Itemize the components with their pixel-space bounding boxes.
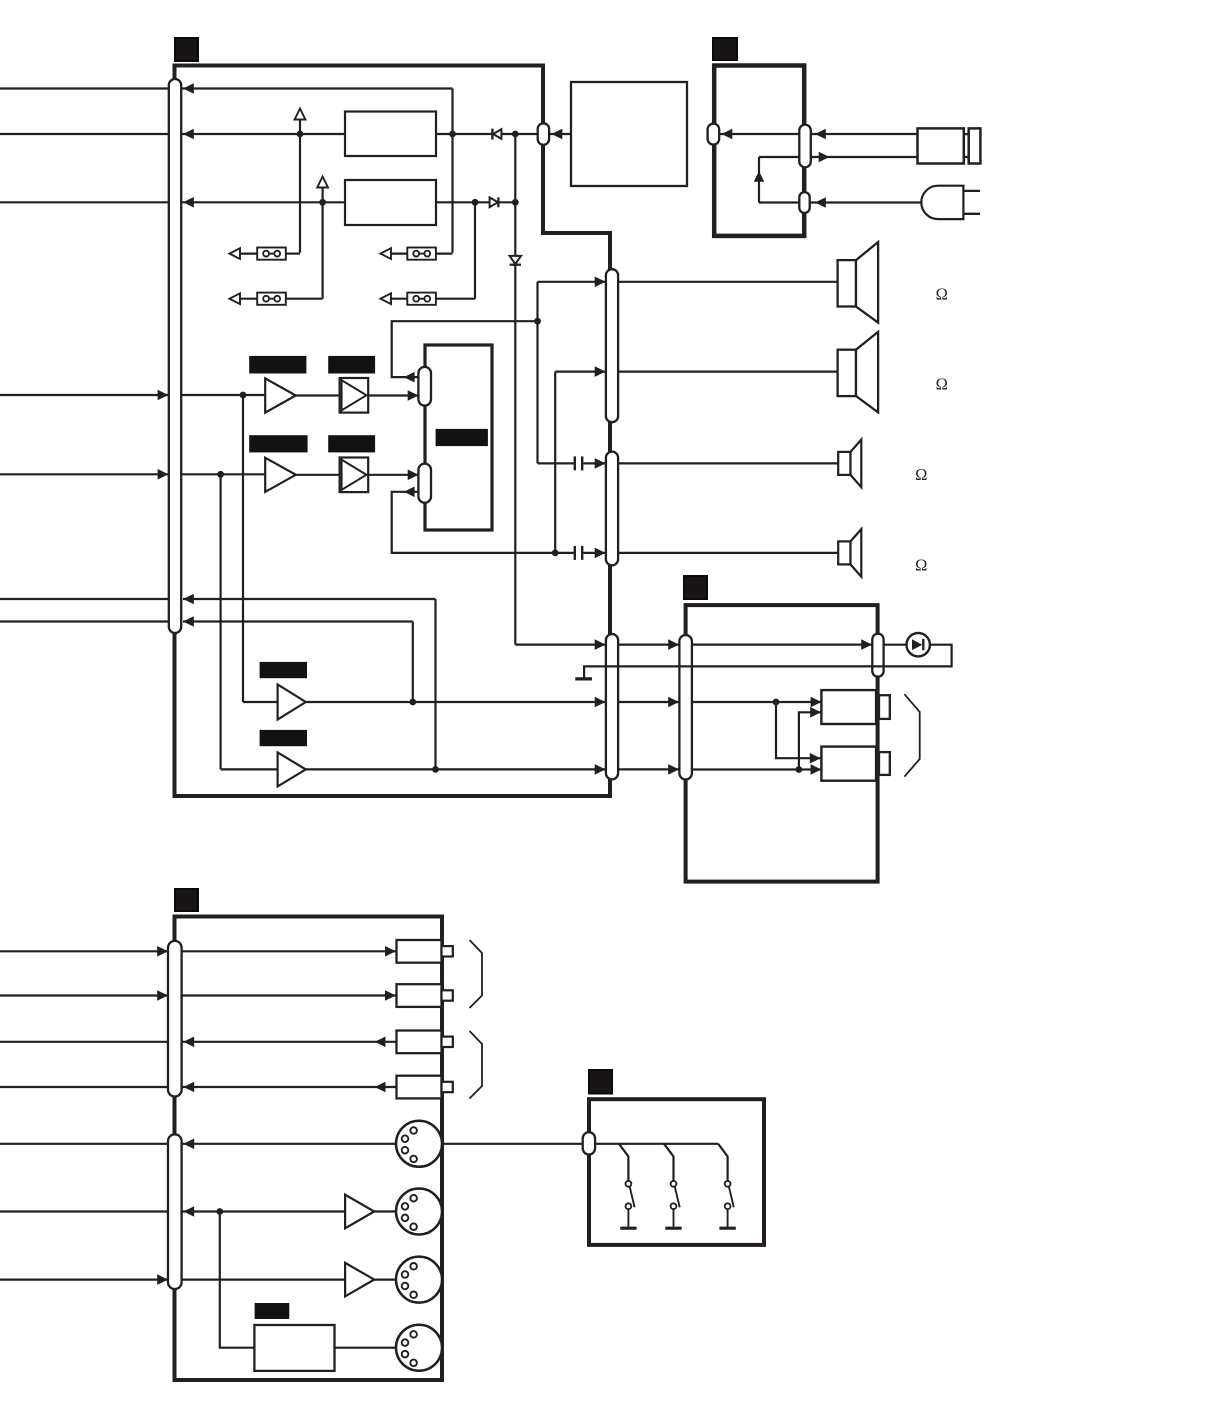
wire: relay 2 output [436, 201, 490, 203]
wire: net W3 segment to relay block 2 [181, 197, 345, 208]
wire: M1 to speaker switch [368, 390, 418, 401]
connector J9 (AC box inlet) [799, 125, 811, 168]
junction: PJ2 branch [796, 766, 803, 773]
relay block 1 [345, 112, 436, 157]
junction: input 1 branch [240, 392, 247, 399]
label bar (redacted) above amp A2 [249, 435, 307, 452]
wire: F4 vertical [474, 202, 476, 298]
diode D1 [492, 129, 501, 140]
wire: to speaker SP1 [618, 281, 838, 283]
wire: play in R to left edge [0, 1086, 168, 1088]
wire: mains to power supply [549, 129, 571, 140]
junction: A4 out tap [432, 766, 439, 773]
RCA jack RCA1 [397, 940, 453, 963]
cabinet name label (redacted) [684, 576, 707, 599]
connector J1 (main unit rear connector) [169, 79, 181, 633]
DIN connector DIN3 [396, 1257, 442, 1303]
wire: input 1 to amp A1 [158, 390, 266, 401]
wire: footswitch tap 2 [664, 1144, 674, 1181]
wire: AC box internal lower [759, 201, 799, 203]
wire: speaker bus vertical A [536, 282, 538, 464]
wire: switch out top to speaker node [392, 321, 538, 382]
DIN connector DIN4 [396, 1325, 442, 1371]
wire: A3 output to connector [306, 697, 606, 708]
connector J6 (cabinet link) [872, 634, 883, 677]
wire: A3 signal to jack PJ1 [692, 697, 822, 708]
wire: input 1 from left edge [0, 394, 169, 396]
wire: A1 to M1 [296, 394, 340, 396]
phone jack PJ1 [821, 690, 889, 724]
wire: D2 to node N1 [498, 201, 515, 203]
wire: power cord hot [811, 129, 918, 140]
wire: node N1 vertical upper [514, 134, 516, 256]
wire: amp B2 to DIN3 [374, 1278, 396, 1280]
wire: rec out R to left edge [0, 994, 168, 996]
wire: output 1 to left edge [0, 87, 169, 89]
amp B2 [345, 1263, 374, 1297]
footswitch SW3 [719, 1181, 735, 1228]
wire: pilot LED feed [884, 644, 907, 646]
amp A4 [278, 752, 306, 786]
capacitor C2 [555, 546, 605, 560]
diode D2 [490, 197, 499, 207]
wire: midi in line to left edge [0, 1278, 168, 1280]
wire: line out 1 loop [183, 594, 436, 770]
junction: N1 top [512, 131, 519, 138]
tape jacks group bracket [470, 940, 483, 1008]
AC mains plug [921, 186, 980, 219]
wire: AC box internal switched line [759, 156, 799, 158]
amp A3 [278, 685, 306, 720]
label bar (redacted) above amp A1 [249, 356, 306, 374]
connector JS1 on switch box [418, 367, 431, 406]
connector J4 (power amp out) [606, 634, 618, 779]
amp A1 [265, 378, 296, 412]
chassis ground [575, 677, 592, 680]
RCA jack RCA3 [397, 1031, 453, 1054]
wire: midi out to amp B1 [182, 1206, 346, 1217]
phones group bracket [904, 694, 919, 777]
wire: speaker 1 feed [538, 277, 606, 288]
svg-text:Ω: Ω [936, 285, 948, 304]
wire: branch to jack PJ2 upper [776, 702, 821, 764]
junction: W1/W2 [449, 131, 456, 138]
connector J5 (cabinet input) [679, 635, 692, 780]
junction: PJ1 branch [773, 699, 780, 706]
pilot LED [907, 633, 930, 656]
impedance label SP3 [915, 465, 927, 484]
wire: A4 signal to jack PJ2 [692, 764, 822, 775]
wire: line out 2 to left edge [0, 620, 169, 622]
diode D3 [510, 256, 521, 265]
wire: remote line to DIN1 [182, 1139, 396, 1150]
capacitor C1 [538, 456, 606, 470]
AC box name label (redacted) [713, 38, 737, 60]
wire: DIN1 to footswitch [442, 1143, 583, 1145]
speaker switch box [425, 345, 492, 530]
wire: input 2 to amp A2 [158, 469, 266, 480]
wire: amp B1 to DIN2 [374, 1210, 396, 1212]
connector J13 (footswitch jack) [583, 1132, 595, 1154]
sense tap arrow T2 [317, 177, 328, 188]
MIDI processor block [254, 1325, 334, 1371]
wire: line out 1 to left edge [0, 598, 169, 600]
wire: midi in from DIN3 [157, 1274, 345, 1285]
wire: input 2 from left edge [0, 473, 169, 475]
wire: remote line to left edge [0, 1143, 168, 1145]
wire: node N1 vertical lower [515, 265, 605, 650]
mute block M1 [340, 378, 369, 413]
DIN connector DIN2 [396, 1189, 442, 1235]
connector J3 (speaker out lower) [606, 452, 618, 566]
mute block M2 [340, 458, 369, 493]
footswitch name label (redacted) [589, 1070, 612, 1094]
wire: power feed between J4 and J5 [618, 639, 679, 650]
connector J12 (MIDI connector) [168, 1134, 182, 1289]
relay block 2 [345, 180, 436, 225]
wire: branch input1 down to amp A3 [243, 395, 278, 702]
speaker SP2 [838, 332, 879, 413]
speaker SP4 [838, 529, 861, 577]
RCA jack RCA2 [397, 984, 453, 1007]
junction: N1 mid [512, 199, 519, 206]
connector J11 (tape connector) [168, 941, 182, 1097]
wire: D1 to node N1 [501, 133, 537, 135]
connector JS2 on switch box [418, 464, 431, 503]
wire: net W2 segment to relay block 1 [181, 129, 345, 140]
wire: rec out L to RCA1 [157, 946, 396, 957]
junction: W3 fuse tap [472, 199, 479, 206]
wire: AC box internal riser [754, 157, 765, 203]
junction: speaker node A [534, 318, 541, 325]
wire: net W1 horizontal [181, 83, 452, 94]
wire: AC plug lead [810, 197, 924, 208]
wire: tap vertical to fuse F2 [322, 188, 324, 299]
label bar (redacted) above amp A3 [260, 662, 307, 678]
wire: output 3 to left edge [0, 201, 169, 203]
amp B1 [345, 1195, 374, 1229]
fuse F1 [230, 248, 301, 260]
fuse F4 [381, 293, 476, 305]
wire: A4 output to connector [306, 764, 606, 775]
wire: output 2 to left edge [0, 133, 169, 135]
label bar (redacted) above mute M2 [328, 435, 375, 452]
wire: A3 signal between J4 and J5 [618, 697, 679, 708]
wire: midi out line to left edge [0, 1210, 168, 1212]
junction: midi out tap [216, 1208, 223, 1215]
svg-text:Ω: Ω [915, 465, 927, 484]
amp A2 [265, 458, 296, 492]
wire: to speaker SP3 [618, 462, 838, 464]
main unit name label (redacted) [175, 38, 198, 61]
footswitch enclosure (Box E) [589, 1099, 764, 1245]
fuse F3 [381, 248, 453, 260]
wire: rec out L to left edge [0, 950, 168, 952]
junction: A3 out tap [409, 699, 416, 706]
connector J7 (mains inlet on main unit) [538, 123, 549, 145]
impedance label SP1 [936, 285, 948, 304]
wire: A2 to M2 [296, 474, 340, 476]
wire: footswitch tap 3 [718, 1144, 727, 1181]
label bar (redacted) above mute M1 [328, 356, 375, 374]
wire: play in L from RCA3 [182, 1037, 397, 1048]
impedance label SP4 [915, 556, 927, 575]
wire: branch input2 down to amp A4 [221, 474, 278, 769]
connector J8 (AC box outlet) [708, 124, 720, 145]
impedance label SP2 [936, 374, 948, 393]
AC distribution box (Box B) [714, 66, 804, 236]
fuse F2 [230, 293, 323, 305]
svg-text:Ω: Ω [936, 374, 948, 393]
junction: input 2 branch [217, 471, 224, 478]
wire: play in R from RCA4 [182, 1082, 397, 1093]
footswitch SW1 [620, 1181, 636, 1228]
MIDI processor label (redacted) [255, 1303, 290, 1319]
wire: AC box internal feed [719, 129, 799, 140]
junction: speaker node B [552, 550, 559, 557]
wire: to speaker SP4 [618, 552, 838, 554]
wire: branch to jack PJ1 lower [799, 707, 821, 770]
wire: power feed inside cabinet [692, 639, 872, 650]
DIN connector DIN1 [396, 1121, 442, 1167]
speaker SP3 [838, 440, 861, 488]
svg-text:Ω: Ω [915, 556, 927, 575]
connector J2 (speaker out upper) [606, 269, 618, 422]
wire: rec out R to RCA2 [157, 990, 396, 1001]
wire: MIDI processor to DIN4 [335, 1347, 397, 1349]
footswitch SW2 [665, 1181, 681, 1228]
junction: tap2 on W3 [319, 199, 326, 206]
power supply block [571, 82, 687, 186]
wire: speaker 2 feed [555, 366, 605, 377]
sense tap arrow T1 [295, 109, 306, 120]
speaker switch label (redacted) [436, 429, 488, 446]
tape-MIDI unit enclosure (Box D) [175, 917, 443, 1381]
wire: pilot LED return loop [584, 645, 952, 678]
wire: switch out bottom to speaker node [392, 487, 556, 553]
connector J10 (AC box plug feed) [799, 192, 809, 213]
RCA jack RCA4 [397, 1076, 453, 1099]
main amplifier unit enclosure [175, 66, 611, 797]
wire: footswitch tap 1 [619, 1144, 628, 1181]
IEC inlet connector [918, 128, 981, 163]
wire: M2 to speaker switch [368, 470, 418, 481]
wire: speaker bus vertical B [554, 372, 556, 553]
phone jack PJ2 [821, 747, 889, 781]
tape-MIDI unit name label (redacted) [175, 889, 198, 911]
wire: line out 2 loop [183, 616, 413, 702]
wire: A4 signal between J4 and J5 [618, 764, 679, 775]
wire: to speaker SP2 [618, 371, 838, 373]
wire: play in L to left edge [0, 1041, 168, 1043]
speaker SP1 [838, 242, 879, 323]
wire: power cord switched [811, 152, 918, 163]
wire: net W1 vertical to fuse F3 [451, 89, 453, 253]
wire: relay 1 output [436, 133, 493, 135]
wire: footswitch bus [595, 1143, 718, 1145]
play jacks group bracket [470, 1031, 483, 1099]
junction: tap1 on W2 [297, 131, 304, 138]
wire: tap down to MIDI processor [220, 1212, 255, 1348]
label bar (redacted) above amp A4 [260, 730, 307, 746]
wire: tap vertical to fuse F1 [299, 120, 301, 253]
powered cabinet enclosure (Box C) [686, 605, 878, 882]
